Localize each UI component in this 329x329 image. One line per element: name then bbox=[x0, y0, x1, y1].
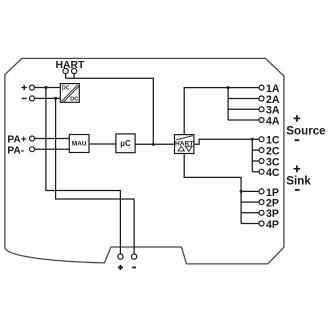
svg-text:DC: DC bbox=[70, 97, 78, 103]
svg-text:4A: 4A bbox=[266, 115, 280, 127]
svg-text:HART: HART bbox=[55, 60, 85, 71]
svg-text:μC: μC bbox=[120, 139, 131, 148]
svg-text:PA-: PA- bbox=[7, 145, 24, 156]
svg-text:Source: Source bbox=[286, 124, 326, 137]
svg-text:PA+: PA+ bbox=[7, 135, 26, 146]
svg-text:4P: 4P bbox=[266, 219, 279, 231]
svg-text:4C: 4C bbox=[266, 167, 280, 179]
svg-text:DC: DC bbox=[62, 86, 70, 92]
svg-text:Sink: Sink bbox=[286, 174, 311, 187]
svg-text:MAU: MAU bbox=[72, 141, 87, 148]
